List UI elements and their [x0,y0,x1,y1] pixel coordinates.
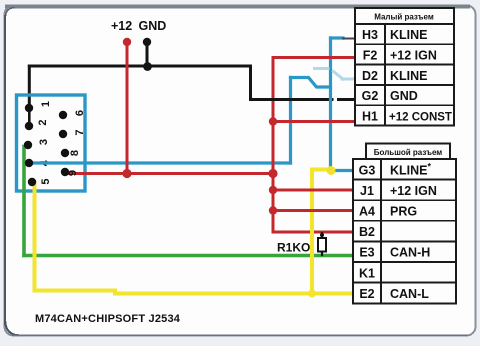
junction dot red at +12 label [123,38,131,46]
big table pin divider [380,159,382,304]
big connector table [353,144,456,304]
wire: GND to G2 (segment after gap) [339,98,355,101]
svg-text:D2: D2 [362,69,378,83]
wire: H1 +12 CONST stub [273,120,354,123]
pin 8 [61,149,69,157]
svg-text:GND: GND [139,19,167,33]
svg-text:G2: G2 [362,89,379,103]
junction dot yellow at G3 node [327,166,336,175]
small table outer [355,8,454,126]
svg-text:PRG: PRG [390,205,417,219]
wire: H3-G3 K-line vertical [329,38,332,171]
svg-text:G3: G3 [359,163,376,177]
svg-text:F2: F2 [363,49,378,63]
wire: yellow riser to G3 node [312,170,331,294]
wire: GND to G2 [251,98,333,101]
connector J1 DB9 shell [17,95,86,191]
svg-text:CAN-L: CAN-L [390,287,429,301]
resistor R1 top cap [320,233,324,237]
svg-text:KLINE*: KLINE* [390,161,432,177]
wire: pin9 +12 horizontal to bus [65,172,273,175]
pin 9 [61,168,69,176]
svg-text:Большой разъем: Большой разъем [374,148,443,157]
wire: E3 CAN-H green horizontal [24,254,353,258]
junction dot red H1 [269,117,277,125]
big table title box [366,144,450,160]
pin 7 [59,130,67,138]
big table row rules [353,180,456,283]
pin 1 [25,104,33,112]
wire: pin1 to pin2 jumper [28,108,31,126]
junction dot red J1 [269,186,277,194]
svg-text:6: 6 [74,110,86,116]
svg-text:M74CAN+CHIPSOFT J2534: M74CAN+CHIPSOFT J2534 [35,313,181,325]
svg-text:CAN-H: CAN-H [390,246,430,260]
svg-text:8: 8 [69,150,81,156]
frame bottom-left corner arc [5,321,19,335]
svg-text:9: 9 [67,170,79,176]
svg-text:R1KO: R1KO [277,241,310,255]
svg-text:+12 IGN: +12 IGN [390,184,437,198]
small connector table [355,8,454,126]
pin 5 [28,178,36,186]
svg-text:KLINE: KLINE [390,28,428,42]
svg-text:K1: K1 [359,266,375,280]
pin 2 [25,122,33,130]
pin 6 [59,111,67,119]
wire: +12 vertical from label [126,43,129,174]
svg-text:GND: GND [390,89,418,103]
svg-text:E3: E3 [359,246,374,260]
small table pin divider [384,24,386,126]
svg-text:E2: E2 [359,287,374,301]
wire: pin4 K-line horizontal [29,161,291,164]
junction dot black GND bus [143,62,152,71]
wire: D2 hop left segment (pale) [315,67,329,70]
svg-text:5: 5 [40,178,52,184]
small table header rule [355,23,454,25]
frame top bar [5,5,470,9]
wire: A4 PRG stub (over yellow) [273,209,353,212]
junction dot black at GND label [143,38,151,46]
wire: pin4 K-line vertical riser [289,78,292,164]
wire: yellow bottom horizontal [35,291,354,294]
wire: pin3 CAN green vertical [22,147,26,256]
svg-text:+12: +12 [111,19,132,33]
small table row rules [355,44,454,105]
svg-text:B2: B2 [359,225,375,239]
wire: pin5 yellow vertical [33,183,37,291]
svg-text:J1: J1 [360,184,374,198]
wire: G3 stub [331,169,354,172]
svg-text:2: 2 [37,119,49,125]
junction dot red pin9 bus [122,169,131,178]
svg-text:A4: A4 [359,205,375,219]
svg-text:+12 CONST: +12 CONST [389,111,452,123]
big table outer [353,159,456,304]
svg-text:KLINE: KLINE [390,69,428,83]
frame top-left corner arc [6,8,16,17]
wire: D2 stub (pale) [342,78,354,81]
svg-text:Малый разъем: Малый разъем [374,13,434,22]
pin 4 [25,159,33,167]
wire: J1 +12 IGN stub (over yellow) [273,189,353,192]
wire: D2 hop diagonal (pale) [334,72,344,80]
svg-text:H3: H3 [362,28,378,42]
svg-text:H1: H1 [362,109,378,123]
wire: GND down to pin 1 [28,66,31,108]
wire: F2 +12 IGN stub [273,56,354,59]
svg-text:3: 3 [38,139,50,145]
wire: B2 stub [273,231,353,234]
wire: +12 bus vertical [272,58,275,233]
pin 3 [24,141,32,149]
junction dot red A4 [269,206,277,214]
resistor R1 body [318,238,326,252]
junction dot red bus mid [268,169,277,178]
svg-text:+12 IGN: +12 IGN [390,49,437,63]
svg-text:1: 1 [40,101,52,107]
frame bottom edge [12,334,468,336]
frame left edge [4,15,6,325]
wire: GND vertical from dot to bus [146,42,149,66]
wire: GND down at x=250 [249,66,252,100]
wire: H3 stub lead into table [343,38,355,40]
junction dot yellow at E2 [308,290,316,298]
wire: H3 stub [331,36,344,39]
wire: GND bus horizontal [29,65,250,68]
svg-text:7: 7 [74,129,86,135]
resistor R1 lead [321,233,323,255]
wire: K-line jog toward D2 [291,78,331,88]
